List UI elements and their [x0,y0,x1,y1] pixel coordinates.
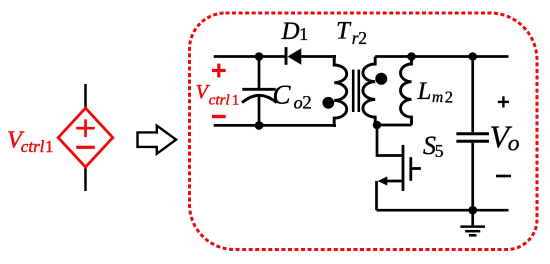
junction bottom wire / ground [468,206,477,215]
svg-text:5: 5 [435,141,444,161]
wire bottom lead of source [84,167,87,191]
transistor S5 source arrow [378,177,388,186]
junction top wire / output rail [468,52,477,61]
label Tr2 [336,18,367,48]
junction top wire / Lm2 [407,52,416,61]
svg-text:2: 2 [445,88,453,107]
wire top secondary [375,55,508,58]
controlled voltage source Vctrl1 (diamond) [58,108,113,167]
node + (output positive) [498,96,509,107]
junction bottom wire / Co2 [255,121,264,130]
svg-text:2: 2 [302,92,312,113]
svg-text:o: o [294,92,303,112]
svg-text:1: 1 [299,24,308,44]
wire output rail top [471,57,474,133]
svg-text:C: C [273,80,292,110]
node + (input port positive) [212,64,226,78]
ground [460,210,485,235]
svg-text:1: 1 [45,137,54,156]
node - (input port negative) [212,115,226,118]
wire bottom secondary [377,209,509,212]
svg-text:2: 2 [358,28,367,48]
svg-text:1: 1 [232,93,240,109]
transformer Tr2 secondary winding [363,57,375,126]
capacitor Vo output [456,134,489,142]
junction secondary bottom node [373,121,382,130]
svg-text:ctrl: ctrl [21,137,45,156]
wire top to diode [259,55,286,58]
label Vctrl1 (left source) [7,127,54,157]
capacitor Co2 [242,57,277,126]
block arrow [138,126,177,154]
svg-text:m: m [432,89,443,106]
wire drain lead [377,125,403,156]
wire source lead [375,181,378,210]
wire secondary bottom to Lm2 [377,124,412,127]
transformer Tr2 primary winding [334,57,347,126]
svg-text:o: o [508,131,520,157]
wire top lead of source [84,84,87,108]
label S5 [423,131,444,161]
diode D1 [286,47,301,65]
label Vo [490,119,520,157]
svg-text:ctrl: ctrl [209,93,230,109]
transformer core [353,70,359,112]
svg-text:T: T [336,18,352,45]
inductor Lm2 [401,57,412,126]
label D1 [281,18,308,45]
wire bottom primary [214,124,336,127]
junction top wire / Co2 [255,52,264,61]
wire output rail bottom [471,143,474,211]
label Lm2 [417,78,454,107]
module boundary dashed box [190,13,538,250]
polarity dot secondary [375,73,387,85]
svg-text:L: L [417,78,432,105]
label Vctrl1 (input port) [196,81,240,109]
transistor S5 [386,145,421,191]
wire diode to primary winding [301,55,336,58]
label Co2 [273,80,312,114]
svg-text:D: D [281,18,300,45]
polarity dot primary [322,97,334,109]
node - (output negative) [496,175,511,178]
wire top port stub [214,55,259,58]
